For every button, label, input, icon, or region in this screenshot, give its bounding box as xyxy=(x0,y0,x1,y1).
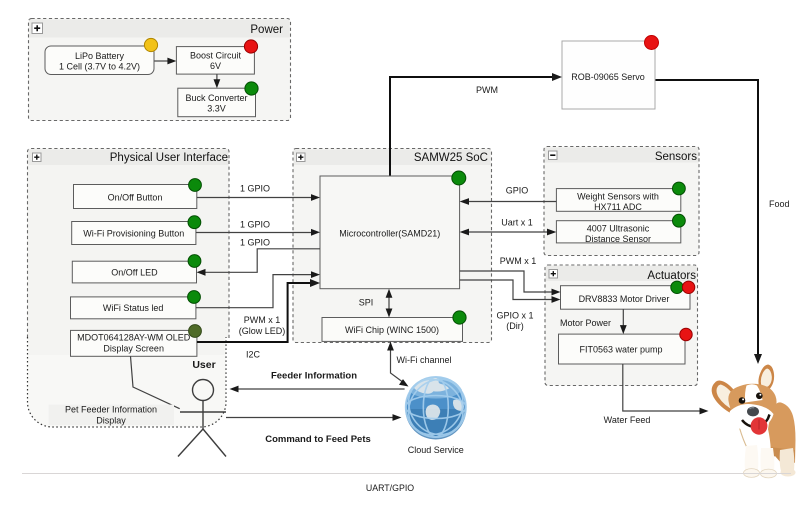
wire GPIO x1 Dir MCU to DRV8833 xyxy=(460,280,561,331)
expand icon Actuators xyxy=(549,270,558,279)
expand icon Power xyxy=(32,23,43,34)
wire Feeder Information Cloud to User xyxy=(230,371,405,393)
status dot green MCU xyxy=(452,171,466,185)
status dot green Ultrasonic xyxy=(673,214,686,227)
dog chest white xyxy=(735,416,771,469)
svg-text:1 GPIO: 1 GPIO xyxy=(240,184,270,194)
wire I2C MDOT to MCU (thick) xyxy=(197,279,320,359)
svg-text:Food: Food xyxy=(769,199,790,209)
svg-text:User: User xyxy=(192,359,215,371)
dog body tan saddle xyxy=(767,402,795,464)
box Boost Circuit xyxy=(176,47,254,75)
wire Water Feed FIT to dog xyxy=(604,364,709,425)
svg-text:4007 Ultrasonic: 4007 Ultrasonic xyxy=(587,223,650,233)
dog head xyxy=(728,384,776,420)
svg-text:GPIO x 1: GPIO x 1 xyxy=(496,310,533,320)
status dot green Buck xyxy=(245,82,258,95)
dog corgi xyxy=(712,365,796,478)
dog ear right xyxy=(758,365,774,390)
wire LiPo to Boost xyxy=(155,58,177,65)
svg-text:On/Off LED: On/Off LED xyxy=(111,267,158,277)
box Microcontroller SAMD21 xyxy=(320,176,460,289)
svg-text:(Glow LED): (Glow LED) xyxy=(239,326,286,336)
status dot green On/Off LED xyxy=(188,255,201,268)
box On/Off Button xyxy=(74,185,197,209)
svg-text:Wi-Fi channel: Wi-Fi channel xyxy=(397,355,452,365)
box LiPo Battery xyxy=(45,46,154,75)
svg-text:Sensors: Sensors xyxy=(655,151,697,163)
group Actuators xyxy=(545,265,698,386)
bottom separator line xyxy=(22,473,791,475)
wire Uart x1 MCU to Ultrasonic (bidir) xyxy=(460,217,557,235)
pointer line MDOT to user display xyxy=(131,356,180,408)
svg-text:PWM: PWM xyxy=(476,85,498,95)
wire Wi-Fi channel WiFi chip to Cloud (bidir) xyxy=(387,342,451,387)
dog muzzle white xyxy=(729,404,773,431)
expand icon SAMW25 xyxy=(297,153,306,162)
box MDOT OLED Display xyxy=(71,330,197,356)
svg-text:Distance Sensor: Distance Sensor xyxy=(585,234,651,244)
status dot red Servo xyxy=(645,36,659,50)
svg-text:GPIO: GPIO xyxy=(506,186,529,196)
status dot green WiFi Status xyxy=(188,291,201,304)
status dot olive MDOT xyxy=(189,325,202,338)
wire 1 GPIO MCU to On/Off LED xyxy=(197,237,321,275)
box WiFi Status led xyxy=(71,297,196,319)
dog paws xyxy=(744,469,760,478)
label box Pet Feeder Information Display xyxy=(49,404,174,425)
box 4007 Ultrasonic xyxy=(556,221,680,244)
group SAMW25 SoC xyxy=(293,149,492,343)
box DRV8833 Motor Driver xyxy=(561,286,691,310)
svg-text:(Dir): (Dir) xyxy=(506,321,524,331)
box Buck Converter xyxy=(178,88,256,117)
group Power xyxy=(29,19,291,121)
group Physical User Interface xyxy=(28,149,230,339)
svg-text:Pet Feeder Information: Pet Feeder Information xyxy=(65,404,157,414)
status dot green On/Off Button xyxy=(189,179,202,192)
status dot green WiFi Provisioning xyxy=(188,216,201,229)
svg-text:Display Screen: Display Screen xyxy=(103,344,164,354)
wire GPIO Weight to MCU xyxy=(460,186,557,205)
dog mouth xyxy=(742,415,770,427)
svg-text:Boost Circuit: Boost Circuit xyxy=(190,51,242,61)
dog ear left xyxy=(712,381,742,416)
svg-text:MDOT064128AY-WM OLED: MDOT064128AY-WM OLED xyxy=(77,332,191,342)
status dot green WiFi chip xyxy=(453,311,466,324)
svg-text:UART/GPIO: UART/GPIO xyxy=(366,483,414,493)
dog tongue xyxy=(751,417,768,434)
status dot red Boost xyxy=(244,40,257,53)
box WiFi Chip WINC1500 xyxy=(322,318,463,342)
svg-text:Water Feed: Water Feed xyxy=(604,415,651,425)
svg-text:Actuators: Actuators xyxy=(647,270,696,282)
svg-text:Wi-Fi Provisioning Button: Wi-Fi Provisioning Button xyxy=(83,228,184,238)
svg-text:FIT0563 water pump: FIT0563 water pump xyxy=(579,344,662,354)
svg-text:ROB-09065 Servo: ROB-09065 Servo xyxy=(571,72,645,82)
cloud service globe xyxy=(397,368,474,455)
svg-text:WiFi Chip (WINC 1500): WiFi Chip (WINC 1500) xyxy=(345,325,439,335)
wire 1 GPIO WiFi Provisioning to MCU xyxy=(196,220,320,236)
svg-text:HX711 ADC: HX711 ADC xyxy=(594,202,642,212)
svg-text:SAMW25 SoC: SAMW25 SoC xyxy=(414,152,488,164)
svg-text:1 GPIO: 1 GPIO xyxy=(240,237,270,247)
svg-text:Physical User Interface: Physical User Interface xyxy=(110,152,228,164)
svg-text:Command to Feed Pets: Command to Feed Pets xyxy=(265,434,371,445)
box Wi-Fi Provisioning Button xyxy=(72,222,196,245)
svg-text:SPI: SPI xyxy=(359,297,374,307)
status dot yellow LiPo xyxy=(144,38,157,51)
svg-text:1 Cell (3.7V to 4.2V): 1 Cell (3.7V to 4.2V) xyxy=(59,62,140,72)
svg-text:Display: Display xyxy=(96,415,126,425)
svg-text:Cloud Service: Cloud Service xyxy=(408,445,464,455)
dog nose xyxy=(747,407,759,417)
wire Servo to dog Food (thick) xyxy=(656,80,790,364)
svg-text:Uart x 1: Uart x 1 xyxy=(501,217,533,227)
wire PWM x1 MCU to DRV8833 xyxy=(460,256,561,296)
svg-text:PWM x 1: PWM x 1 xyxy=(500,256,537,266)
wire PWM MCU to Servo (thick) xyxy=(390,73,562,176)
svg-text:Microcontroller(SAMD21): Microcontroller(SAMD21) xyxy=(339,229,440,239)
status dot red DRV8833 xyxy=(682,281,694,293)
wire Motor Power DRV to FIT xyxy=(560,309,627,334)
status dot green Weight xyxy=(673,182,686,195)
svg-text:On/Off Button: On/Off Button xyxy=(108,192,163,202)
status dot green DRV8833 xyxy=(671,281,683,293)
svg-text:Power: Power xyxy=(250,24,283,36)
wire Boost to Buck xyxy=(214,74,221,88)
status dot red FIT0563 xyxy=(680,328,692,340)
dog eyes xyxy=(739,397,746,404)
box ROB-09065 Servo xyxy=(562,41,655,109)
dog blaze white xyxy=(745,384,763,402)
dog front legs xyxy=(745,445,759,470)
svg-text:3.3V: 3.3V xyxy=(207,103,226,113)
svg-text:Motor Power: Motor Power xyxy=(560,318,611,328)
expand icon PUI xyxy=(33,153,42,162)
wire SPI MCU to WiFi chip (bidir) xyxy=(359,289,393,318)
box FIT0563 water pump xyxy=(559,334,686,364)
dog hind leg paw xyxy=(780,448,795,471)
svg-text:I2C: I2C xyxy=(246,349,261,359)
user stick figure xyxy=(178,380,226,457)
svg-text:Feeder Information: Feeder Information xyxy=(271,371,357,382)
svg-text:6V: 6V xyxy=(210,61,221,71)
collapse icon Sensors xyxy=(549,151,558,160)
group Sensors xyxy=(544,147,699,256)
box On/Off LED xyxy=(72,261,196,283)
svg-text:DRV8833 Motor Driver: DRV8833 Motor Driver xyxy=(579,294,670,304)
svg-text:PWM x 1: PWM x 1 xyxy=(244,315,281,325)
svg-text:1 GPIO: 1 GPIO xyxy=(240,220,270,230)
svg-text:Weight Sensors with: Weight Sensors with xyxy=(577,192,659,202)
wire PWM x1 Glow LED WiFi Status to MCU xyxy=(196,271,320,336)
wire Command to Feed Pets User to Cloud xyxy=(226,414,402,445)
svg-text:Buck Converter: Buck Converter xyxy=(185,93,247,103)
svg-text:WiFi Status led: WiFi Status led xyxy=(103,303,164,313)
wire 1 GPIO On/Off Button to MCU xyxy=(197,184,320,201)
box Weight Sensors xyxy=(556,189,680,213)
svg-text:LiPo Battery: LiPo Battery xyxy=(75,51,125,61)
container Pet Feeder Information Display (dotted rounded) xyxy=(28,330,227,427)
